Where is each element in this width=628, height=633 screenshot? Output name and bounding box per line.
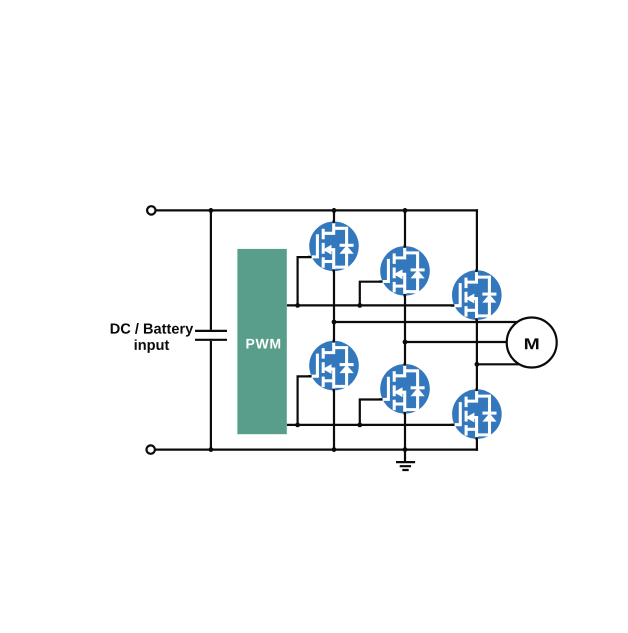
transistor Q4 low-side phase A	[308, 340, 359, 392]
node phase A output	[332, 320, 337, 325]
wire gate Q4 low-side A	[298, 376, 320, 426]
label DC / Battery input	[111, 323, 194, 353]
wire phase C column	[476, 209, 478, 451]
ground	[396, 462, 415, 470]
capacitor C1	[195, 331, 227, 340]
node phase A top rail junction	[332, 208, 337, 213]
wire gate Q2 high-side B	[360, 282, 390, 307]
transistor Q1 high-side phase A	[308, 220, 359, 272]
wire top DC+ rail	[156, 209, 478, 211]
transistor Q6 low-side phase C	[451, 388, 502, 440]
wire phase C to motor	[477, 363, 532, 365]
wire gate Q1 high-side A	[298, 257, 320, 307]
wire capacitor bottom lead	[210, 341, 212, 450]
node ground junction	[403, 447, 408, 452]
wire gate Q5 low-side B	[360, 400, 390, 427]
wire phase B to motor	[405, 341, 532, 343]
wire ground stub	[404, 450, 406, 461]
transistor Q3 high-side phase C	[451, 269, 502, 321]
transistor Q2 high-side phase B	[379, 245, 430, 297]
node gate bus B high	[357, 303, 362, 308]
node capacitor bottom junction	[209, 447, 214, 452]
node gate bus A low	[295, 423, 300, 428]
node gate bus B low	[357, 423, 362, 428]
wire high-side gate bus from PWM	[287, 304, 458, 306]
motor M	[507, 318, 557, 368]
DC input positive terminal	[147, 206, 155, 214]
node gate bus A high	[295, 303, 300, 308]
wire bottom DC- rail	[155, 449, 478, 451]
node phase B top rail junction	[403, 208, 408, 213]
wire capacitor top lead	[210, 210, 212, 330]
wire phase B column	[404, 210, 406, 449]
PWM controller block U1	[237, 249, 286, 434]
node phase A bottom rail junction	[332, 447, 337, 452]
node phase B output	[403, 340, 408, 345]
wire phase A to motor	[334, 321, 532, 323]
transistor Q5 low-side phase B	[379, 363, 430, 415]
DC input negative terminal	[147, 445, 155, 453]
wire low-side gate bus from PWM	[287, 424, 458, 426]
wire phase A column	[333, 210, 335, 449]
node capacitor top junction	[209, 208, 214, 213]
node phase C output	[475, 362, 480, 367]
